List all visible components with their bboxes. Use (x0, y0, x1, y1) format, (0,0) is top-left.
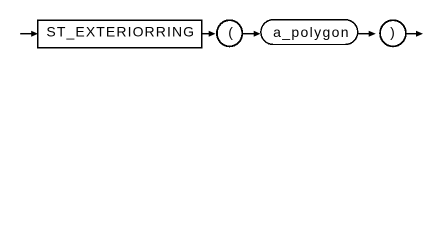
svg-text:(: ( (228, 24, 233, 40)
svg-text:): ) (390, 24, 395, 40)
svg-text:a_polygon: a_polygon (273, 24, 350, 40)
svg-text:ST_EXTERIORRING: ST_EXTERIORRING (46, 24, 195, 40)
